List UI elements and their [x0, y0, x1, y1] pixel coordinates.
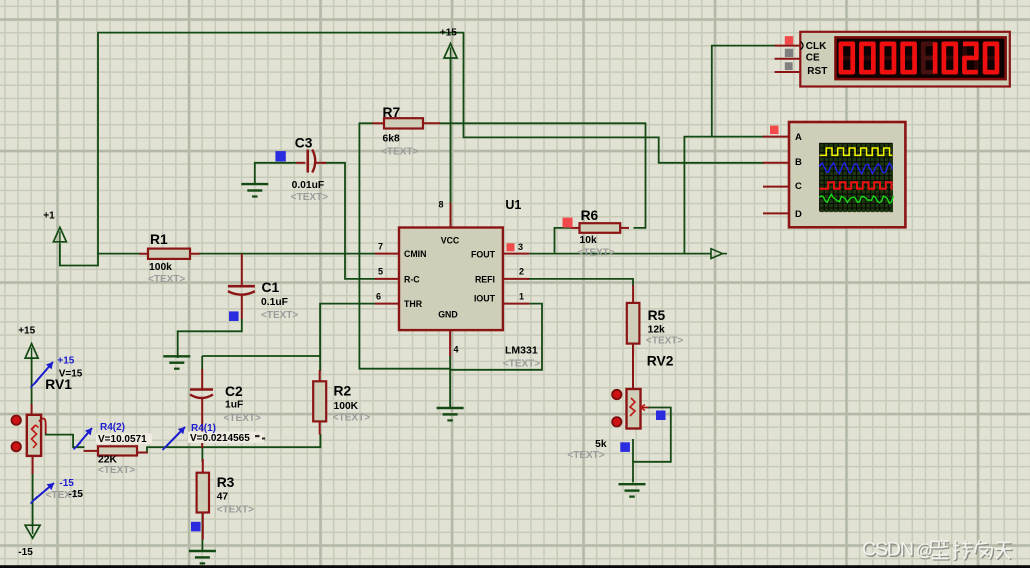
- svg-text:GND: GND: [438, 310, 458, 320]
- svg-text:<TEXT>: <TEXT>: [503, 358, 540, 369]
- svg-text:6: 6: [376, 292, 381, 302]
- svg-text:R1: R1: [150, 232, 168, 247]
- svg-text:-15: -15: [69, 489, 84, 500]
- svg-text:<TEXT>: <TEXT>: [646, 336, 683, 347]
- svg-text:V=15: V=15: [59, 369, 83, 380]
- svg-text:3: 3: [518, 242, 523, 252]
- svg-text:<TEXT>: <TEXT>: [381, 147, 418, 158]
- svg-text:4: 4: [453, 345, 458, 355]
- svg-text:R4(2): R4(2): [100, 422, 125, 433]
- svg-text:<TEXT>: <TEXT>: [98, 465, 135, 476]
- svg-text:U1: U1: [505, 198, 521, 212]
- svg-text:V=10.0571: V=10.0571: [98, 434, 147, 445]
- svg-text:10k: 10k: [580, 235, 597, 246]
- svg-text:1uF: 1uF: [225, 400, 243, 411]
- svg-text:C: C: [795, 181, 802, 192]
- svg-text:+15: +15: [57, 356, 74, 367]
- svg-text:<TEXT>: <TEXT>: [261, 310, 298, 321]
- svg-text:R7: R7: [383, 105, 401, 120]
- svg-text:RST: RST: [807, 66, 827, 77]
- svg-text:C1: C1: [262, 280, 280, 295]
- svg-text:A: A: [795, 132, 802, 143]
- svg-text:8: 8: [438, 200, 443, 210]
- svg-text:12k: 12k: [648, 324, 665, 335]
- svg-text:+15: +15: [18, 325, 35, 336]
- svg-text:<TEXT>: <TEXT>: [291, 192, 328, 203]
- svg-text:C3: C3: [295, 135, 313, 150]
- svg-text:V=0.0214565: V=0.0214565: [190, 433, 250, 444]
- svg-text:7: 7: [378, 242, 383, 252]
- svg-text:<TEXT>: <TEXT>: [148, 274, 185, 285]
- svg-text:R3: R3: [217, 475, 235, 490]
- svg-text:+15: +15: [440, 27, 457, 38]
- svg-text:IOUT: IOUT: [474, 294, 496, 304]
- svg-text:CLK: CLK: [806, 41, 827, 52]
- svg-text:5k: 5k: [595, 439, 607, 450]
- svg-text:B: B: [795, 157, 802, 168]
- svg-text:R6: R6: [581, 208, 599, 223]
- svg-text:100K: 100K: [334, 401, 359, 412]
- svg-text:47: 47: [217, 492, 229, 503]
- svg-text:REFI: REFI: [475, 275, 495, 285]
- svg-text:<TEXT>: <TEXT>: [224, 413, 261, 424]
- svg-text:R2: R2: [334, 384, 352, 399]
- svg-text:D: D: [795, 209, 802, 220]
- svg-text:C2: C2: [225, 384, 243, 399]
- svg-text:22K: 22K: [98, 454, 117, 465]
- svg-text:+1: +1: [43, 211, 55, 222]
- svg-text:0.1uF: 0.1uF: [261, 297, 288, 308]
- svg-text:1: 1: [519, 292, 524, 302]
- svg-text:RV2: RV2: [647, 354, 674, 369]
- svg-text:-15: -15: [18, 547, 33, 558]
- svg-text:<TEXT>: <TEXT>: [217, 504, 254, 515]
- svg-text:6k8: 6k8: [383, 133, 400, 144]
- svg-text:CMIN: CMIN: [404, 249, 426, 259]
- svg-text:<TEXT>: <TEXT>: [567, 450, 604, 461]
- svg-text:THR: THR: [404, 299, 423, 309]
- svg-text:R-C: R-C: [404, 274, 420, 284]
- svg-text:CSDN: CSDN: [862, 539, 914, 561]
- svg-text:0.01uF: 0.01uF: [292, 180, 325, 191]
- svg-text:CE: CE: [806, 52, 820, 63]
- svg-text:2: 2: [519, 267, 524, 277]
- svg-text:FOUT: FOUT: [471, 249, 496, 259]
- svg-text:LM331: LM331: [505, 345, 538, 357]
- svg-text:-15: -15: [59, 478, 74, 489]
- svg-text:5: 5: [378, 267, 383, 277]
- svg-text:VCC: VCC: [441, 236, 460, 246]
- svg-text:100k: 100k: [149, 262, 172, 273]
- svg-text:R5: R5: [648, 308, 666, 323]
- svg-text:<TEXT>: <TEXT>: [333, 413, 370, 424]
- svg-text:<TEXT>: <TEXT>: [578, 248, 615, 259]
